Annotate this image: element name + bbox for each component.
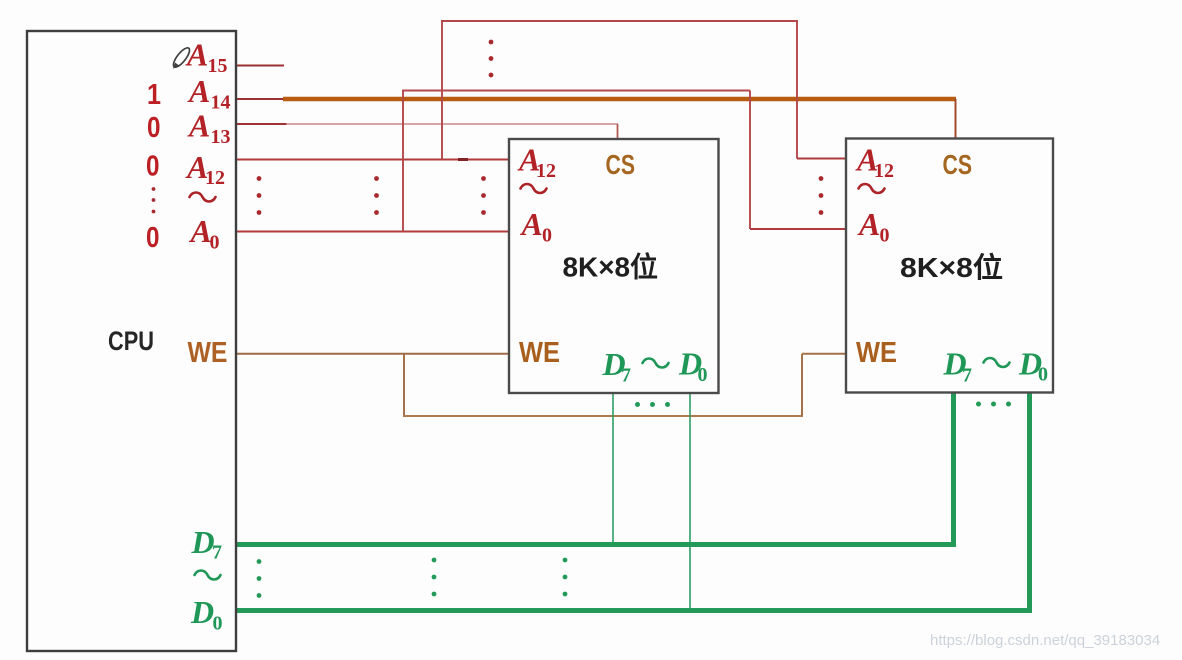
svg-text:A: A	[857, 206, 880, 242]
svg-text:A: A	[189, 213, 212, 249]
svg-text:https://blog.csdn.net/qq_39183: https://blog.csdn.net/qq_39183034	[930, 632, 1160, 649]
svg-text:0: 0	[213, 613, 223, 635]
svg-text:D: D	[190, 594, 214, 630]
svg-text:7: 7	[621, 365, 631, 387]
svg-text:0: 0	[698, 364, 708, 386]
svg-text:WE: WE	[856, 337, 897, 369]
svg-text:CS: CS	[943, 149, 973, 180]
svg-text:A: A	[187, 108, 210, 144]
svg-text:0: 0	[1038, 364, 1048, 386]
svg-text:12: 12	[536, 160, 556, 182]
svg-text:0: 0	[542, 225, 552, 247]
svg-text:8K×8位: 8K×8位	[900, 251, 1003, 283]
svg-text:14: 14	[211, 92, 231, 114]
svg-text:0: 0	[146, 151, 160, 183]
svg-text:12: 12	[205, 167, 225, 189]
svg-text:0: 0	[147, 112, 161, 144]
svg-text:CPU: CPU	[108, 326, 154, 356]
svg-text:WE: WE	[188, 337, 228, 369]
svg-text:CS: CS	[606, 149, 636, 180]
svg-text:A: A	[187, 73, 210, 109]
svg-text:7: 7	[212, 542, 222, 564]
svg-text:7: 7	[962, 365, 972, 387]
svg-text:0: 0	[210, 232, 220, 254]
svg-text:1: 1	[147, 79, 161, 111]
svg-text:13: 13	[211, 126, 231, 148]
svg-text:0: 0	[146, 222, 160, 254]
svg-text:0: 0	[880, 225, 890, 247]
svg-text:A: A	[520, 206, 543, 242]
svg-text:8K×8位: 8K×8位	[563, 251, 659, 283]
svg-text:D: D	[191, 524, 215, 560]
svg-text:15: 15	[208, 55, 228, 77]
svg-text:WE: WE	[519, 337, 560, 369]
svg-text:12: 12	[874, 160, 894, 182]
